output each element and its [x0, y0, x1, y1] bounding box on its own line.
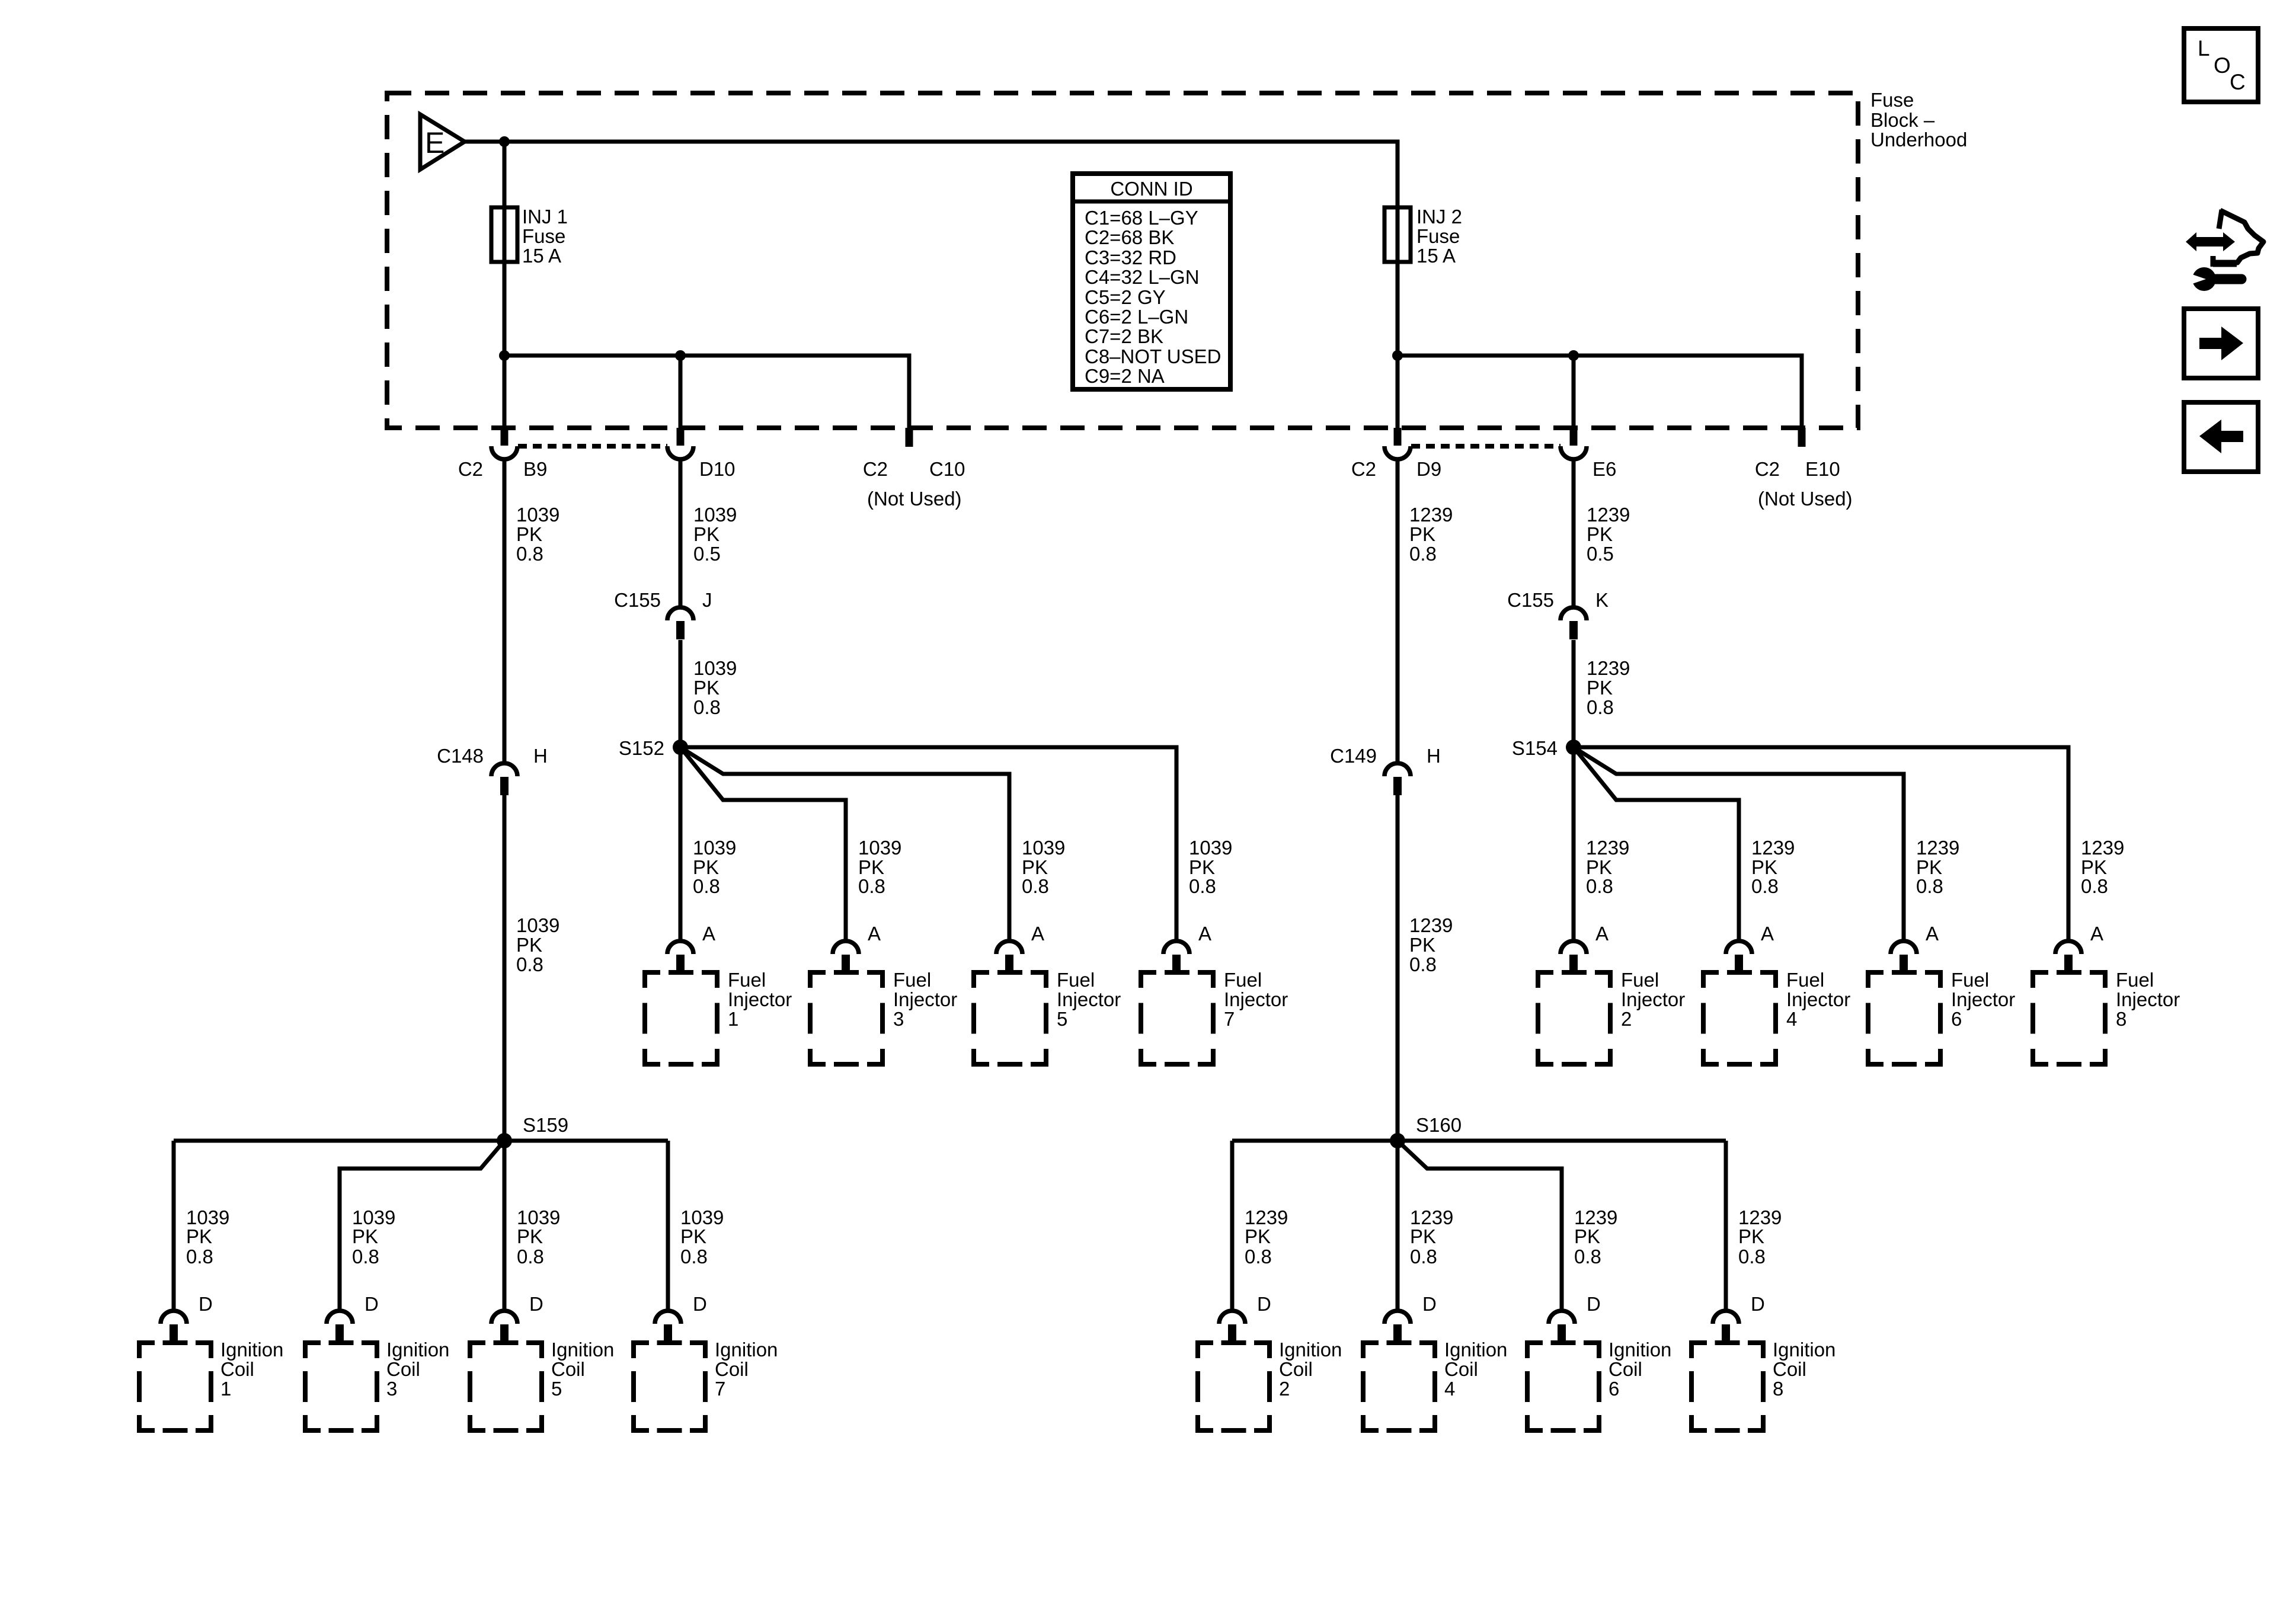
wire S160 to ignition coil 6 — [1398, 1141, 1562, 1311]
fuel injector 2 box — [1538, 972, 1610, 1064]
svg-text:C2: C2 — [1755, 458, 1780, 480]
svg-text:Injector: Injector — [728, 988, 792, 1010]
svg-text:Injector: Injector — [893, 988, 957, 1010]
svg-text:Fuel: Fuel — [1786, 969, 1824, 991]
svg-text:Fuse: Fuse — [522, 225, 565, 247]
ignition coil 7 box — [634, 1343, 705, 1430]
svg-text:0.8: 0.8 — [693, 875, 720, 897]
svg-text:Coil: Coil — [1279, 1358, 1313, 1380]
wire: drop to pin B9 — [503, 356, 507, 428]
svg-text:0.8: 0.8 — [1587, 696, 1614, 718]
svg-text:PK: PK — [680, 1225, 706, 1247]
svg-text:S159: S159 — [523, 1114, 568, 1136]
wire label 1039 PK 0.8 — [693, 657, 737, 718]
svg-text:H: H — [533, 745, 548, 767]
svg-text:1039: 1039 — [693, 657, 737, 679]
connector E power feed triangle — [420, 114, 465, 169]
svg-text:Ignition: Ignition — [220, 1339, 283, 1361]
svg-text:Coil: Coil — [1773, 1358, 1806, 1380]
vehicle harness repair icon — [2186, 210, 2263, 291]
svg-text:5: 5 — [551, 1378, 562, 1400]
ignition coil 6 box — [1527, 1343, 1599, 1430]
wire: right bus to E10 stub — [1398, 356, 1802, 428]
svg-text:A: A — [702, 923, 715, 945]
svg-text:C2: C2 — [1351, 458, 1376, 480]
junction dot D9 — [1392, 350, 1403, 361]
svg-text:Injector: Injector — [2116, 988, 2180, 1010]
wire: main feed from E to INJ2 fuse — [465, 142, 1398, 207]
svg-text:INJ 2: INJ 2 — [1416, 206, 1462, 228]
wire S154 to injector 4 — [1574, 747, 1739, 941]
svg-text:7: 7 — [1224, 1008, 1235, 1030]
svg-text:4: 4 — [1786, 1008, 1797, 1030]
svg-text:Injector: Injector — [1951, 988, 2015, 1010]
svg-text:PK: PK — [1409, 523, 1435, 545]
label Ignition Coil 8 — [1773, 1339, 1835, 1400]
svg-text:C10: C10 — [929, 458, 965, 480]
svg-text:Ignition: Ignition — [1444, 1339, 1507, 1361]
svg-text:0.8: 0.8 — [1916, 875, 1943, 897]
svg-text:C5=2 GY: C5=2 GY — [1085, 286, 1166, 308]
label: Fuse Block - Underhood — [1870, 89, 1967, 151]
svg-text:1039: 1039 — [516, 504, 559, 526]
wire label 1039 PK 0.8 (coil 3 branch) — [352, 1206, 395, 1267]
wire S154 to injector 6 — [1574, 747, 1904, 941]
forward arrow button — [2184, 309, 2258, 378]
svg-text:Coil: Coil — [715, 1358, 749, 1380]
svg-text:0.8: 0.8 — [680, 1246, 708, 1267]
connector pin A of fuel injector 1 — [667, 941, 693, 973]
svg-text:8: 8 — [2116, 1008, 2126, 1030]
label Ignition Coil 1 — [220, 1339, 283, 1400]
svg-text:Ignition: Ignition — [386, 1339, 449, 1361]
wire label 1039 PK 0.8 — [516, 914, 559, 975]
wire: drop to pin D9 — [1396, 356, 1400, 428]
wire 1039 PK 0.8 from C155 J to S152 — [679, 640, 683, 747]
svg-text:Coil: Coil — [1609, 1358, 1642, 1380]
svg-text:C1=68 L–GY: C1=68 L–GY — [1085, 207, 1198, 229]
ignition coil 3 box — [305, 1343, 377, 1430]
svg-text:0.8: 0.8 — [2081, 875, 2108, 897]
svg-text:0.8: 0.8 — [1586, 875, 1613, 897]
svg-text:Coil: Coil — [1444, 1358, 1478, 1380]
svg-text:H: H — [1427, 745, 1441, 767]
wire 1239 PK 0.5 from E6 to C155 K — [1572, 460, 1576, 607]
wire: drop to pin E6 — [1572, 356, 1576, 428]
ignition coil 2 box — [1198, 1343, 1269, 1430]
label Ignition Coil 3 — [386, 1339, 449, 1400]
junction dot E6 — [1568, 350, 1579, 361]
fuel injector 3 box — [810, 972, 882, 1064]
ignition coil 4 box — [1363, 1343, 1435, 1430]
wire label 1239 PK 0.8 (coil 2 branch) — [1245, 1206, 1288, 1267]
fuel injector 1 box — [645, 972, 717, 1064]
wire label 1039 PK 0.5 — [693, 504, 737, 565]
label Fuel Injector 3 — [893, 969, 957, 1030]
svg-text:S154: S154 — [1512, 737, 1558, 759]
svg-text:PK: PK — [1587, 523, 1613, 545]
fuel injector 4 box — [1703, 972, 1776, 1064]
junction dot B9 — [499, 350, 510, 361]
svg-text:C8–NOT USED: C8–NOT USED — [1085, 345, 1221, 367]
svg-text:Fuse: Fuse — [1870, 89, 1914, 111]
svg-text:0.8: 0.8 — [1738, 1246, 1766, 1267]
wire label 1039 PK 0.8 (coil 1 branch) — [186, 1206, 229, 1267]
svg-text:PK: PK — [516, 523, 542, 545]
svg-text:A: A — [1926, 923, 1939, 945]
svg-text:D: D — [529, 1293, 543, 1315]
svg-text:C: C — [2230, 70, 2246, 94]
svg-text:Fuel: Fuel — [1621, 969, 1659, 991]
svg-text:D: D — [1751, 1293, 1765, 1315]
svg-text:C3=32 RD: C3=32 RD — [1085, 247, 1176, 268]
fuse INJ 1 15 A — [491, 206, 568, 267]
svg-text:1239: 1239 — [1751, 837, 1795, 859]
label Ignition Coil 7 — [715, 1339, 778, 1400]
svg-text:Ignition: Ignition — [1773, 1339, 1835, 1361]
wire label 1239 PK 0.8 — [1409, 914, 1453, 975]
wire S159 bus to coils 1 and 7 — [174, 1139, 668, 1143]
wire label 1239 PK 0.8 — [1587, 657, 1630, 718]
wire drop to ignition coil 8 — [1724, 1141, 1728, 1311]
wire 1239 PK 0.8 from C155 K to S154 — [1572, 640, 1576, 747]
svg-text:A: A — [1031, 923, 1044, 945]
dashed connector link B9-D10 — [518, 444, 667, 449]
wire label 1239 PK 0.8 (injector 2 branch) — [1586, 837, 1629, 897]
label Ignition Coil 5 — [551, 1339, 614, 1400]
wire drop to ignition coil 1 — [172, 1141, 176, 1311]
connector pin D of ignition coil 1 — [161, 1311, 187, 1343]
svg-text:Coil: Coil — [551, 1358, 585, 1380]
svg-text:A: A — [868, 923, 881, 945]
svg-text:D: D — [1257, 1293, 1271, 1315]
svg-text:K: K — [1595, 589, 1609, 611]
svg-text:C155: C155 — [1507, 589, 1554, 611]
label Fuel Injector 2 — [1621, 969, 1685, 1030]
pin label C2 / E10 (Not Used) — [1755, 458, 1853, 510]
label Fuel Injector 7 — [1224, 969, 1288, 1030]
svg-text:Fuel: Fuel — [1951, 969, 1989, 991]
svg-text:D: D — [1587, 1293, 1601, 1315]
label Ignition Coil 6 — [1609, 1339, 1671, 1400]
connector pin D of ignition coil 8 — [1713, 1311, 1739, 1343]
fuel injector 8 box — [2033, 972, 2105, 1064]
svg-text:1: 1 — [220, 1378, 231, 1400]
svg-text:1239: 1239 — [1586, 837, 1629, 859]
label Ignition Coil 2 — [1279, 1339, 1342, 1400]
svg-text:8: 8 — [1773, 1378, 1783, 1400]
svg-text:PK: PK — [1245, 1225, 1271, 1247]
connector pin A of fuel injector 8 — [2055, 941, 2081, 973]
wire drop to ignition coil 5 — [503, 1141, 507, 1311]
svg-text:A: A — [1761, 923, 1774, 945]
svg-text:PK: PK — [1738, 1225, 1764, 1247]
wire label 1239 PK 0.8 (injector 6 branch) — [1916, 837, 1959, 897]
connector pin A of fuel injector 4 — [1726, 941, 1752, 973]
svg-text:C6=2 L–GN: C6=2 L–GN — [1085, 306, 1188, 328]
svg-text:Injector: Injector — [1621, 988, 1685, 1010]
svg-text:1039: 1039 — [858, 837, 901, 859]
svg-text:5: 5 — [1057, 1008, 1067, 1030]
svg-text:O: O — [2214, 53, 2231, 78]
connector pin A of fuel injector 5 — [996, 941, 1022, 973]
wire label 1039 PK 0.8 (coil 5 branch) — [517, 1206, 560, 1267]
svg-text:7: 7 — [715, 1378, 725, 1400]
svg-text:C2=68 BK: C2=68 BK — [1085, 226, 1174, 248]
svg-text:D: D — [199, 1293, 213, 1315]
wire S152 to injector 7 — [680, 747, 1176, 941]
wire label 1239 PK 0.8 (coil 4 branch) — [1410, 1206, 1453, 1267]
label C155 / J — [614, 589, 712, 611]
svg-text:0.8: 0.8 — [186, 1246, 213, 1267]
wire label 1239 PK 0.5 — [1587, 504, 1630, 565]
wire label 1039 PK 0.8 (injector 1 branch) — [693, 837, 736, 897]
svg-text:PK: PK — [352, 1225, 378, 1247]
splice S160 — [1390, 1133, 1405, 1148]
svg-text:Ignition: Ignition — [1279, 1339, 1342, 1361]
svg-text:PK: PK — [186, 1225, 212, 1247]
svg-text:6: 6 — [1951, 1008, 1962, 1030]
splice S159 — [497, 1133, 512, 1148]
label C148 / H — [437, 745, 548, 767]
connector pin A of fuel injector 7 — [1163, 941, 1189, 973]
label C149 / H — [1330, 745, 1441, 767]
svg-text:4: 4 — [1444, 1378, 1455, 1400]
svg-text:D10: D10 — [699, 458, 736, 480]
svg-text:0.8: 0.8 — [352, 1246, 379, 1267]
connector pin A of fuel injector 3 — [833, 941, 859, 973]
svg-text:Coil: Coil — [220, 1358, 254, 1380]
svg-text:C2: C2 — [863, 458, 888, 480]
svg-text:1039: 1039 — [1189, 837, 1232, 859]
svg-text:Injector: Injector — [1057, 988, 1121, 1010]
wire label 1039 PK 0.8 (coil 7 branch) — [680, 1206, 724, 1267]
junction dot D10 — [675, 350, 686, 361]
wire: drop to INJ1 fuse — [503, 142, 507, 207]
svg-text:D: D — [1422, 1293, 1437, 1315]
wire label 1039 PK 0.8 (injector 5 branch) — [1022, 837, 1065, 897]
svg-text:0.8: 0.8 — [1751, 875, 1779, 897]
svg-text:Fuse: Fuse — [1416, 225, 1460, 247]
svg-text:D: D — [364, 1293, 379, 1315]
svg-text:D: D — [693, 1293, 707, 1315]
wire: INJ1 fuse to left bus — [503, 262, 507, 356]
svg-text:0.8: 0.8 — [1245, 1246, 1272, 1267]
svg-text:Ignition: Ignition — [1609, 1339, 1671, 1361]
wire S152 to injector 3 — [680, 747, 846, 941]
junction dot at INJ1 branch — [499, 136, 510, 147]
svg-text:1239: 1239 — [1409, 504, 1453, 526]
connector C2 pin B9 — [491, 428, 517, 459]
wire label 1239 PK 0.8 (coil 6 branch) — [1574, 1206, 1617, 1267]
svg-text:Fuel: Fuel — [1224, 969, 1262, 991]
svg-text:C2: C2 — [458, 458, 483, 480]
wire S154 to injector 8 — [1574, 747, 2068, 941]
svg-text:S160: S160 — [1416, 1114, 1462, 1136]
wire S154 to injector 2 — [1572, 747, 1576, 941]
svg-text:PK: PK — [1409, 934, 1435, 956]
dashed connector link D9-E6 — [1411, 444, 1560, 449]
svg-text:0.8: 0.8 — [858, 875, 885, 897]
wire 1239 PK 0.8 from C149 to S160 — [1396, 795, 1400, 1141]
svg-text:B9: B9 — [523, 458, 547, 480]
svg-text:1239: 1239 — [2081, 837, 2124, 859]
fuel injector 7 box — [1141, 972, 1213, 1064]
fuse INJ 2 15 A — [1384, 206, 1462, 267]
wire 1039 PK 0.5 from D10 to C155 J — [679, 460, 683, 607]
in-line connector C149 pin H — [1384, 763, 1411, 795]
LOC legend box — [2184, 28, 2258, 102]
svg-text:D9: D9 — [1416, 458, 1441, 480]
connector pin D of ignition coil 3 — [327, 1311, 353, 1343]
svg-text:PK: PK — [693, 677, 720, 699]
svg-text:Fuel: Fuel — [2116, 969, 2154, 991]
svg-text:C149: C149 — [1330, 745, 1377, 767]
svg-text:Injector: Injector — [1224, 988, 1288, 1010]
fuel injector 5 box — [974, 972, 1046, 1064]
svg-text:Ignition: Ignition — [551, 1339, 614, 1361]
svg-text:1239: 1239 — [1916, 837, 1959, 859]
svg-text:L: L — [2198, 36, 2210, 60]
svg-text:E10: E10 — [1805, 458, 1840, 480]
pin label C2 / D9 — [1351, 458, 1441, 480]
svg-text:PK: PK — [516, 934, 542, 956]
svg-text:Fuel: Fuel — [1057, 969, 1095, 991]
pin label C2 / B9 — [458, 458, 548, 480]
svg-text:PK: PK — [1410, 1225, 1436, 1247]
svg-text:0.8: 0.8 — [1410, 1246, 1437, 1267]
svg-text:1239: 1239 — [1587, 657, 1630, 679]
svg-text:1039: 1039 — [693, 504, 737, 526]
label Fuel Injector 6 — [1951, 969, 2015, 1030]
svg-text:C148: C148 — [437, 745, 484, 767]
connector pin D of ignition coil 7 — [655, 1311, 681, 1343]
svg-text:S152: S152 — [619, 737, 664, 759]
connector pin A of fuel injector 2 — [1560, 941, 1587, 973]
svg-text:C155: C155 — [614, 589, 661, 611]
wire 1039 PK 0.8 from B9 to C148 — [503, 460, 507, 763]
svg-text:E6: E6 — [1593, 458, 1616, 480]
ignition coil 1 box — [139, 1343, 211, 1430]
wire 1239 PK 0.8 from D9 to C149 — [1396, 460, 1400, 763]
wire S160 bus to coils 2 and 8 — [1232, 1139, 1726, 1143]
svg-text:1: 1 — [728, 1008, 738, 1030]
svg-text:PK: PK — [1574, 1225, 1600, 1247]
label C155 / K — [1507, 589, 1609, 611]
svg-text:CONN ID: CONN ID — [1110, 178, 1192, 200]
svg-text:1039: 1039 — [1022, 837, 1065, 859]
ignition coil 5 box — [470, 1343, 542, 1430]
svg-text:A: A — [2090, 923, 2103, 945]
wire S152 to injector 1 — [679, 747, 683, 941]
svg-text:0.8: 0.8 — [1409, 543, 1437, 565]
wire drop to ignition coil 4 — [1396, 1141, 1400, 1311]
svg-text:Coil: Coil — [386, 1358, 420, 1380]
fuel injector 6 box — [1868, 972, 1940, 1064]
wire S152 to injector 5 — [680, 747, 1009, 941]
svg-text:0.8: 0.8 — [1574, 1246, 1601, 1267]
svg-text:0.5: 0.5 — [1587, 543, 1614, 565]
splice S152 — [673, 740, 688, 755]
svg-text:C4=32 L–GN: C4=32 L–GN — [1085, 266, 1200, 288]
svg-text:0.8: 0.8 — [1022, 875, 1049, 897]
connector pin D of ignition coil 2 — [1219, 1311, 1245, 1343]
wire label 1039 PK 0.8 — [516, 504, 559, 565]
svg-text:0.5: 0.5 — [693, 543, 721, 565]
svg-text:Underhood: Underhood — [1870, 129, 1967, 151]
label Fuel Injector 4 — [1786, 969, 1850, 1030]
wire label 1039 PK 0.8 (injector 7 branch) — [1189, 837, 1232, 897]
svg-text:1239: 1239 — [1409, 914, 1453, 936]
wire 1039 PK 0.8 from C148 to S159 — [503, 795, 507, 1141]
svg-text:0.8: 0.8 — [1189, 875, 1216, 897]
svg-text:3: 3 — [893, 1008, 904, 1030]
svg-text:Injector: Injector — [1786, 988, 1850, 1010]
connector pin D of ignition coil 4 — [1384, 1311, 1411, 1343]
connector C2 pin E10 (not used) stub — [1798, 428, 1806, 447]
wire label 1239 PK 0.8 (coil 8 branch) — [1738, 1206, 1782, 1267]
label Fuel Injector 1 — [728, 969, 792, 1030]
svg-text:15 A: 15 A — [1416, 245, 1456, 267]
svg-text:J: J — [702, 589, 712, 611]
svg-text:(Not Used): (Not Used) — [1758, 488, 1853, 510]
svg-text:PK: PK — [517, 1225, 543, 1247]
pin label C2 / C10 (Not Used) — [863, 458, 965, 510]
svg-text:(Not Used): (Not Used) — [867, 488, 962, 510]
svg-text:Fuel: Fuel — [728, 969, 766, 991]
label Fuel Injector 5 — [1057, 969, 1121, 1030]
splice S154 — [1566, 740, 1581, 755]
wire drop to ignition coil 7 — [666, 1141, 670, 1311]
wire label 1239 PK 0.8 (injector 4 branch) — [1751, 837, 1795, 897]
wire S159 to ignition coil 3 — [340, 1141, 504, 1311]
svg-text:3: 3 — [386, 1378, 397, 1400]
svg-text:1039: 1039 — [693, 837, 736, 859]
CONN ID legend table — [1073, 174, 1230, 389]
wire label 1039 PK 0.8 (injector 3 branch) — [858, 837, 901, 897]
connector C2 pin D9 — [1384, 428, 1411, 459]
svg-text:2: 2 — [1621, 1008, 1632, 1030]
svg-text:Fuel: Fuel — [893, 969, 931, 991]
connector C2 pin C10 (not used) stub — [906, 428, 913, 447]
svg-text:0.8: 0.8 — [1409, 953, 1437, 975]
svg-text:Ignition: Ignition — [715, 1339, 778, 1361]
svg-text:1239: 1239 — [1587, 504, 1630, 526]
wire: drop to pin D10 — [679, 356, 683, 428]
svg-text:Block –: Block – — [1870, 109, 1935, 131]
wire label 1239 PK 0.8 (injector 8 branch) — [2081, 837, 2124, 897]
svg-text:0.8: 0.8 — [693, 696, 721, 718]
svg-text:A: A — [1595, 923, 1609, 945]
back arrow button — [2184, 402, 2258, 472]
in-line connector C155 pin K — [1560, 607, 1587, 639]
svg-text:C7=2 BK: C7=2 BK — [1085, 325, 1163, 347]
connector pin D of ignition coil 6 — [1549, 1311, 1575, 1343]
ignition coil 8 box — [1691, 1343, 1763, 1430]
svg-text:PK: PK — [693, 523, 720, 545]
svg-text:0.8: 0.8 — [517, 1246, 544, 1267]
svg-text:0.8: 0.8 — [516, 953, 543, 975]
in-line connector C155 pin J — [667, 607, 693, 639]
connector pin A of fuel injector 6 — [1891, 941, 1917, 973]
wire drop to ignition coil 2 — [1230, 1141, 1235, 1311]
label Ignition Coil 4 — [1444, 1339, 1507, 1400]
svg-text:1039: 1039 — [516, 914, 559, 936]
connector C2 pin D10 — [667, 428, 693, 459]
svg-text:15 A: 15 A — [522, 245, 561, 267]
svg-text:E: E — [425, 126, 445, 159]
svg-text:2: 2 — [1279, 1378, 1290, 1400]
